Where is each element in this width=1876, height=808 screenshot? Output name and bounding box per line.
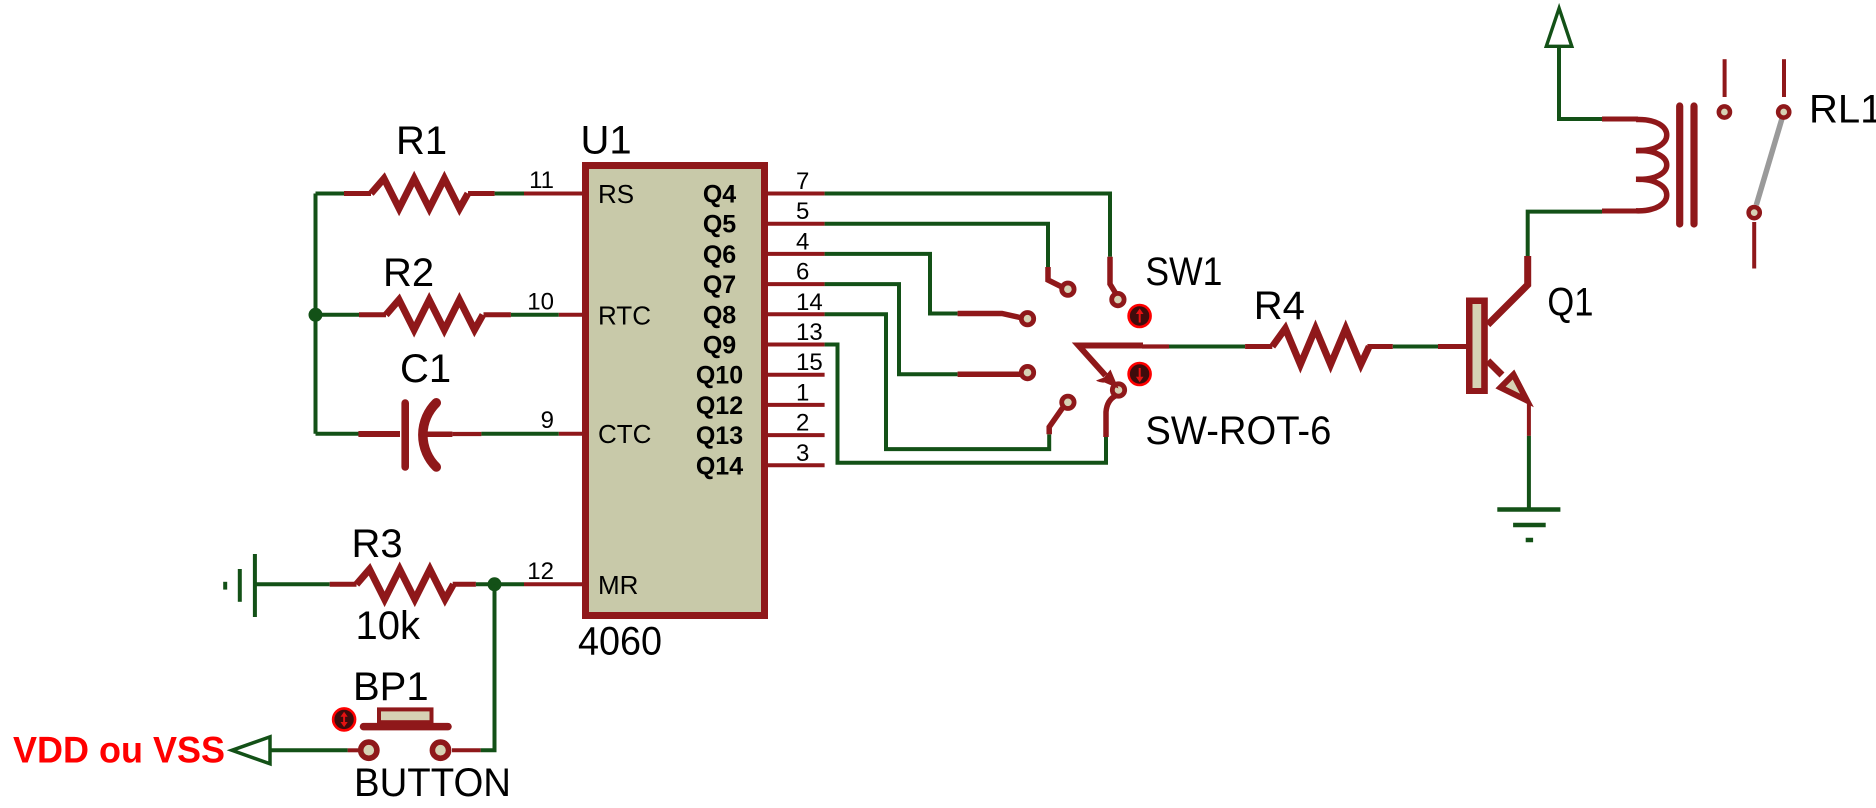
svg-text:C1: C1 xyxy=(400,347,451,391)
SW1 pos3 lead xyxy=(958,314,1020,318)
SW1 pad pos4 xyxy=(1021,366,1033,378)
svg-text:Q14: Q14 xyxy=(696,452,743,480)
SW1 pad pos6 xyxy=(1112,384,1124,396)
capacitor C1 xyxy=(358,403,481,467)
wire R4 to Q1 base xyxy=(1393,345,1438,349)
SW1 common pin stub xyxy=(1142,344,1169,348)
SW1 pos2 lead xyxy=(1110,257,1116,293)
BP1 cap xyxy=(379,709,432,722)
resistor R3 xyxy=(330,569,476,599)
SW1 arm arrowhead xyxy=(1096,370,1119,389)
wire ground to R3 xyxy=(255,582,330,586)
resistor R4 xyxy=(1245,329,1393,365)
svg-text:R4: R4 xyxy=(1254,284,1305,328)
wire Q7 to SW pos4 xyxy=(825,284,958,374)
wire Q9 to SW pos6 xyxy=(825,345,1106,463)
SW1 pad pos3 xyxy=(1021,313,1033,325)
svg-text:3: 3 xyxy=(796,440,809,467)
pin 12 MR stub xyxy=(524,582,582,586)
svg-text:CTC: CTC xyxy=(598,419,651,449)
svg-text:4: 4 xyxy=(796,228,809,255)
right pin stubs Q4..Q14 xyxy=(768,194,825,466)
SW1 pos5 lead xyxy=(1049,408,1062,434)
BP1 actuate button xyxy=(333,708,355,730)
wire R3 to pin 12 with junction xyxy=(476,582,524,586)
SW1 pad pos2 xyxy=(1112,293,1124,305)
svg-text:1: 1 xyxy=(796,379,809,406)
svg-text:15: 15 xyxy=(796,349,823,376)
SW1 down button xyxy=(1129,363,1151,385)
SW1 up button xyxy=(1129,305,1151,327)
svg-text:Q13: Q13 xyxy=(696,422,743,450)
wire R2 row left xyxy=(316,313,360,317)
wire R2 to pin 10 xyxy=(511,313,559,317)
SW1 pos4 lead xyxy=(958,372,1020,378)
node junction left bus / R2 xyxy=(309,308,323,322)
svg-text:14: 14 xyxy=(796,289,823,316)
wire R1 row left xyxy=(316,192,345,196)
svg-text:Q5: Q5 xyxy=(703,211,736,239)
svg-text:SW1: SW1 xyxy=(1145,250,1222,294)
svg-text:Q1: Q1 xyxy=(1547,281,1593,325)
svg-text:4060: 4060 xyxy=(578,620,662,664)
svg-text:Q10: Q10 xyxy=(696,362,743,390)
svg-text:RTC: RTC xyxy=(598,300,651,330)
transistor Q1 xyxy=(1438,256,1529,436)
svg-text:BP1: BP1 xyxy=(353,665,429,709)
RL1 coil loops xyxy=(1636,119,1667,210)
svg-text:Q12: Q12 xyxy=(696,392,743,420)
button BP1 xyxy=(333,708,481,758)
SW1 pad pos5 xyxy=(1062,396,1074,408)
svg-text:2: 2 xyxy=(796,410,809,437)
svg-text:Q7: Q7 xyxy=(703,271,736,299)
wire button to VDD arrow xyxy=(270,748,348,752)
svg-text:SW-ROT-6: SW-ROT-6 xyxy=(1145,409,1331,453)
BP1 terminals xyxy=(361,742,377,758)
node junction MR / button xyxy=(488,577,502,591)
svg-text:RS: RS xyxy=(598,179,634,209)
svg-text:6: 6 xyxy=(796,259,809,286)
relay RL1 xyxy=(1602,59,1789,268)
right pin numbers xyxy=(796,168,823,467)
svg-text:R2: R2 xyxy=(383,251,434,295)
wire Q5 to SW pos1 xyxy=(825,224,1048,267)
svg-text:10k: 10k xyxy=(356,604,421,648)
svg-text:Q4: Q4 xyxy=(703,181,736,209)
resistor R1 xyxy=(344,179,495,209)
wire C1 to pin 9 xyxy=(481,432,558,436)
wire SW1 pole to R4 xyxy=(1169,345,1245,349)
svg-text:Q8: Q8 xyxy=(703,301,736,329)
SW1 pos1 lead xyxy=(1048,267,1062,287)
svg-text:13: 13 xyxy=(796,319,823,346)
Q1 base bar xyxy=(1466,298,1488,395)
power arrow VCC xyxy=(1546,8,1602,119)
SW1 pole lever and arm xyxy=(1079,346,1144,376)
RL1 coil bottom lead xyxy=(1602,209,1638,214)
svg-text:10: 10 xyxy=(527,288,554,315)
svg-text:12: 12 xyxy=(527,558,554,585)
pin 10 RTC stub xyxy=(559,313,582,317)
wire left vertical bus R1/R2/C1 xyxy=(314,194,318,434)
Q1 emitter arrowhead xyxy=(1501,375,1528,401)
IC U1 4060 body xyxy=(586,166,765,616)
BP1 bar xyxy=(364,723,449,731)
pin 9 CTC stub xyxy=(559,432,582,436)
Q1 base lead xyxy=(1438,344,1466,349)
SW1 pos6 lead xyxy=(1106,396,1116,438)
svg-text:9: 9 xyxy=(541,407,554,434)
RL1 contact pads xyxy=(1719,106,1730,117)
svg-text:MR: MR xyxy=(598,570,638,600)
pin names Q4..Q14 xyxy=(696,181,743,481)
RL1 core bars xyxy=(1680,106,1694,224)
svg-text:R1: R1 xyxy=(396,119,447,163)
svg-text:Q9: Q9 xyxy=(703,332,736,360)
svg-text:Q6: Q6 xyxy=(703,241,736,269)
wire Q1 emitter to ground xyxy=(1527,436,1531,510)
wire Q4 to SW pos2 xyxy=(825,194,1110,257)
SW1 pad pos1 xyxy=(1062,283,1074,295)
svg-text:U1: U1 xyxy=(581,119,632,163)
svg-text:RL1: RL1 xyxy=(1809,88,1876,132)
wire Q1 collector to relay coil xyxy=(1528,212,1602,256)
ground (rotated) at R3 left xyxy=(225,554,255,617)
Q1 emitter diagonal xyxy=(1488,361,1502,375)
resistor R2 xyxy=(359,300,511,330)
wire C1 row left xyxy=(316,432,361,436)
Q1 collector diagonal xyxy=(1488,256,1528,325)
svg-text:VDD ou VSS: VDD ou VSS xyxy=(13,730,225,771)
RL1 contact stubs xyxy=(1725,59,1784,268)
wire Q8 to SW pos5 xyxy=(825,314,1050,449)
ground under Q1 xyxy=(1497,510,1560,541)
svg-text:R3: R3 xyxy=(352,522,403,566)
wire Q6 to SW pos3 xyxy=(825,254,958,314)
svg-text:11: 11 xyxy=(529,167,554,194)
svg-text:7: 7 xyxy=(796,168,809,195)
wire junction down to button xyxy=(481,584,495,750)
BP1 stubs xyxy=(348,748,358,752)
RL1 blade xyxy=(1756,117,1782,206)
RL1 coil top lead xyxy=(1602,117,1638,122)
rotary switch SW1 xyxy=(958,257,1169,437)
pin 11 RS stub xyxy=(524,192,582,196)
wire R1 to pin 11 xyxy=(495,192,524,196)
terminal arrow VDD xyxy=(232,737,270,764)
svg-text:5: 5 xyxy=(796,198,809,225)
Q1 emitter vertical xyxy=(1527,403,1531,436)
svg-text:BUTTON: BUTTON xyxy=(354,761,511,805)
